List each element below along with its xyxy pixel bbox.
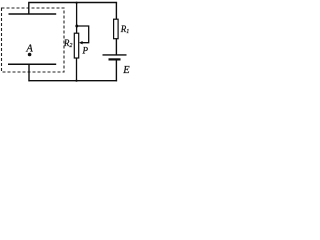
svg-text:A: A: [25, 43, 33, 54]
node junction top: [76, 2, 78, 4]
capacitor bottom plate: [8, 63, 56, 65]
wire battery down: [115, 59, 117, 81]
dashed region box: [2, 8, 65, 72]
node bottom junction: [75, 80, 77, 82]
battery E short plate: [109, 58, 121, 60]
wire top plate to top bus: [28, 3, 30, 15]
wire top bus to R2: [76, 3, 78, 34]
svg-text:P: P: [82, 46, 89, 56]
wire R1 drop: [115, 3, 117, 20]
svg-text:R1: R1: [120, 24, 130, 35]
wire wiper arm: [77, 26, 89, 43]
svg-text:R2: R2: [63, 38, 73, 49]
wiper arrowhead P: [79, 41, 83, 44]
wire R1 to battery: [115, 39, 117, 55]
wire top bus: [28, 2, 117, 4]
wire bottom plate down: [28, 64, 30, 81]
capacitor top plate: [9, 13, 57, 15]
wire bottom bus: [28, 80, 117, 82]
resistor R1 body: [114, 19, 119, 39]
resistor R2 body: [74, 33, 78, 58]
node A dot: [28, 53, 32, 57]
wire below R2: [76, 58, 78, 81]
node wiper junction: [75, 25, 78, 28]
battery E long plate: [103, 54, 127, 56]
svg-text:E: E: [122, 65, 130, 76]
